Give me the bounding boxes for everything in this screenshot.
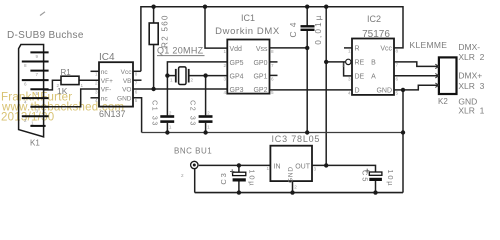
node RE tie [324,60,328,64]
connector K1 pin 5 bar [30,88,48,90]
resistor R2 body [149,23,158,45]
node Vss tap [305,46,309,50]
connector K1 pin 1 bar [30,125,45,127]
svg-text:C1 33: C1 33 [151,100,158,127]
connector K1 pin 7 bar [30,70,48,72]
svg-text:1: 1 [81,83,84,88]
svg-text:RE: RE [355,60,365,67]
wire GND right drop [402,90,404,193]
svg-text:GP2: GP2 [253,87,267,94]
svg-text:2: 2 [342,63,345,68]
svg-text:5: 5 [135,98,138,103]
svg-text:VB: VB [123,78,132,85]
IC3 box [270,146,312,181]
svg-text:0,01µ: 0,01µ [314,13,323,44]
connector K2 XLR body [439,57,457,94]
svg-text:BNC BU1: BNC BU1 [174,147,212,156]
svg-text:10µ: 10µ [386,169,395,187]
svg-text:75176: 75176 [362,29,390,40]
wire Vcc top rail [141,7,403,72]
svg-text:K2: K2 [438,97,448,106]
svg-text:7: 7 [396,63,399,68]
node IC3 GND on rail2 [290,190,294,194]
svg-text:6: 6 [271,76,274,81]
svg-text:1: 1 [266,166,269,171]
svg-text:10µ: 10µ [248,169,257,187]
svg-text:2: 2 [169,111,172,116]
wire +5V column [325,7,327,166]
svg-text:1: 1 [207,125,210,130]
wire GP3 row [133,88,227,90]
node crystal left [165,73,169,77]
wire BNC shield drop [194,169,196,193]
wire C4 column lower / GND drop [306,31,308,133]
svg-text:nc: nc [101,95,109,102]
connector K2 pin 1 chevron [435,83,439,87]
IC2 box [352,39,394,95]
connector K2 pin 3 chevron [435,74,439,78]
svg-text:4: 4 [223,90,226,95]
svg-text:GP1: GP1 [253,73,267,80]
svg-text:2: 2 [57,83,60,88]
svg-text:R2 560: R2 560 [161,14,170,48]
svg-text:XLR 2: XLR 2 [458,52,484,62]
wire IC1 GP1 stub [270,74,278,76]
svg-text:nc: nc [101,69,109,76]
svg-text:R1: R1 [61,68,72,77]
wire C1 column [166,76,168,116]
svg-text:DMX-: DMX- [458,42,480,52]
svg-text:GP5: GP5 [230,60,244,67]
node crystal right [203,73,207,77]
capacitor C3 positive plate [233,172,246,175]
svg-text:6: 6 [135,89,138,94]
wire IC4 pin4 stub [91,97,100,99]
wire IC2 B to XLR2 [394,62,439,67]
svg-text:C2 33: C2 33 [189,100,196,127]
crystal Q1 label underline [157,55,205,57]
svg-text:DMX+: DMX+ [458,71,482,81]
svg-text:GP3: GP3 [230,87,244,94]
svg-text:R: R [355,46,360,53]
svg-text:Q1 20MHZ: Q1 20MHZ [157,46,204,56]
node rail1 right end [401,130,405,134]
svg-text:8: 8 [24,63,27,68]
svg-text:GP0: GP0 [253,60,267,67]
svg-text:DE: DE [355,74,365,81]
svg-text:5: 5 [36,91,39,96]
node R2 bottom on VO line [151,87,155,91]
svg-text:2: 2 [95,81,98,86]
svg-text:7: 7 [36,72,39,77]
svg-text:2: 2 [294,185,297,190]
svg-text:4: 4 [95,98,98,103]
wire C4 column upper [306,7,308,26]
node C2 on rail [203,130,207,134]
svg-text:1: 1 [95,72,98,77]
svg-text:1: 1 [31,120,34,125]
svg-text:8: 8 [135,72,138,77]
svg-text:2: 2 [24,118,27,123]
svg-text:OUT: OUT [295,163,311,170]
connector K1 pin 2 bar [22,115,49,117]
node junction dots [151,5,405,195]
wire IC1 Vdd riser [205,7,227,48]
svg-text:VO: VO [122,87,131,94]
node IC2 GND corner [401,88,405,92]
svg-text:Vdd: Vdd [230,46,243,53]
wire RE tie [326,61,345,63]
wire IC1 GP0 stub [270,61,278,63]
wire GP5 loop [167,62,227,76]
node C4 top [305,5,309,9]
capacitor C3 negative plate [233,178,246,181]
wire C5 column bottom [375,181,377,193]
wire C2 column [205,76,207,116]
svg-text:4: 4 [348,91,351,96]
svg-text:1: 1 [169,125,172,130]
capacitor C5 negative plate [369,178,382,181]
wire IC4 pin1 stub [91,70,100,72]
svg-text:D: D [355,88,360,95]
crystal Q1 body [179,67,186,85]
connector BU1 BNC center pin [193,164,196,167]
svg-text:6: 6 [24,82,27,87]
wire GP2 to D [270,89,353,91]
wire IC2 GND stub [394,89,403,91]
svg-text:2013/1/30: 2013/1/30 [1,112,54,124]
svg-text:VF-: VF- [101,87,111,94]
svg-text:Vss: Vss [256,46,268,53]
wire crystal row right [190,75,228,77]
svg-text:1: 1 [170,78,173,83]
svg-text:1: 1 [348,49,351,54]
svg-text:B: B [371,60,376,67]
svg-text:8: 8 [271,49,274,54]
svg-text:GND: GND [376,88,392,95]
svg-text:3: 3 [348,77,351,82]
svg-text:3: 3 [95,89,98,94]
wire C1 to ground rail [166,123,168,133]
svg-text:C4: C4 [288,19,298,38]
svg-text:2: 2 [207,111,210,116]
wire C3 column top [238,165,240,172]
svg-text:2: 2 [191,78,194,83]
svg-text:3: 3 [223,76,226,81]
IC1 box [227,40,269,94]
svg-text:3: 3 [36,108,39,113]
svg-text:8: 8 [396,49,399,54]
capacitor C5 positive plate [369,172,382,175]
svg-text:2: 2 [181,173,184,178]
node +5V column top [324,5,328,9]
wire IC1 Vss to C4 [270,47,308,49]
wire IC3 GND pin drop [292,181,294,193]
svg-text:Vcc: Vcc [380,46,392,53]
svg-text:VF+: VF+ [101,78,113,85]
wire DSUB pin3 to IC4 VF- [44,89,99,107]
stray pencil tick [40,12,45,16]
node C5 on rail2 [373,190,377,194]
svg-text:Dworkin DMX: Dworkin DMX [215,26,280,37]
connector K1 D-SUB9 outline [19,45,44,137]
capacitor C1 plates [160,117,174,122]
wire C3 column bottom [238,182,240,193]
svg-text:Vcc: Vcc [121,69,133,76]
svg-text:7: 7 [135,81,138,86]
node C1 on rail [165,130,169,134]
IC4 box [99,62,133,106]
svg-text:GND: GND [117,95,132,102]
svg-text:3: 3 [314,167,317,172]
wire ground rail 2 [195,192,403,194]
node R2 top [151,5,155,9]
wire R2 vertical bottom [153,45,155,90]
svg-text:GND: GND [288,166,295,183]
wire R2 vertical top [153,7,155,23]
connector BU1 BNC outer ring [191,161,198,168]
svg-text:5: 5 [396,91,399,96]
svg-text:IN: IN [274,163,281,170]
node C3 top [237,163,241,167]
svg-text:6N137: 6N137 [99,109,126,119]
svg-text:6: 6 [396,77,399,82]
connector K1 pin 6 bar [22,79,49,81]
svg-text:2: 2 [223,63,226,68]
wire RE-DE jog [344,63,352,76]
svg-text:4: 4 [24,100,27,105]
connector K1 pin 4 bar [22,97,49,99]
connector K1 pin 9 bar [30,51,48,53]
svg-text:C3: C3 [219,171,228,184]
capacitor C3 plus mark [230,169,234,173]
capacitor C4 plates [301,26,315,30]
node Vdd riser top [203,5,207,9]
wire crystal row left [167,75,175,77]
connector K1 pin 8 bar [22,61,49,63]
node +5V at OUT [324,163,328,167]
wire IC4 Vcc stub [133,70,141,72]
wire IC2 R stub [344,47,352,49]
wire C2 to ground rail [205,123,207,133]
wire IC4 VB stub [133,79,142,81]
crystal Q1 right plate [188,69,190,83]
wire BNC to IC3 IN [199,164,271,166]
wire R1 to IC4 VF+ [79,79,99,81]
svg-text:IC2: IC2 [367,14,381,24]
crystal Q1 left plate [175,69,177,83]
svg-text:XLR 1: XLR 1 [458,106,484,116]
IC2 inversion bubble on RE [346,59,351,64]
capacitor C5 plus mark [365,169,369,173]
wire GND to XLR1 [403,85,439,90]
capacitor C2 plates [199,117,213,122]
svg-text:GP4: GP4 [230,73,244,80]
svg-text:D-SUB9 Buchse: D-SUB9 Buchse [7,30,84,41]
connector K2 pin 2 chevron [435,64,439,68]
wire DSUB pin5 to R1 jog [44,80,61,90]
wire IC3 OUT to C5 [312,165,376,172]
connector K1 pin 3 bar [30,106,48,108]
resistor R1 body [61,76,79,84]
node C3 on rail2 [237,190,241,194]
svg-text:A: A [371,74,376,81]
wire IC2 A to XLR3 [394,75,439,77]
svg-text:IC1: IC1 [241,13,255,23]
svg-text:9: 9 [36,54,39,59]
svg-text:1: 1 [223,49,226,54]
svg-text:K1: K1 [30,139,40,148]
svg-text:IC3 78L05: IC3 78L05 [272,134,321,144]
svg-text:KLEMME: KLEMME [410,40,448,50]
node C4 on rail [305,130,309,134]
svg-text:C5: C5 [361,170,370,183]
svg-text:5: 5 [271,90,274,95]
svg-text:XLR 3: XLR 3 [458,81,484,91]
wire IC4 GND drop [133,98,142,133]
svg-text:7: 7 [271,63,274,68]
wire ground rail 1 [142,132,403,134]
svg-text:IC4: IC4 [99,52,115,63]
